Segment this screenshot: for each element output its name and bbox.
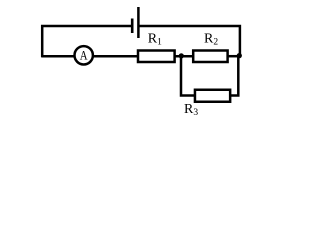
wire: battery to top-right corner, right vertical, to R3 right lead: [140, 26, 240, 58]
svg-text:A: A: [80, 48, 88, 63]
wire: bottom-left horizontal to ammeter: [41, 55, 74, 58]
wire: ammeter to R1: [94, 55, 138, 58]
ammeter A circle: [75, 46, 93, 64]
battery B1 long plate (positive): [137, 7, 140, 38]
node B junction dot: [237, 53, 242, 58]
wire: R2 to node B: [227, 55, 240, 58]
battery B1 short plate (negative): [131, 19, 134, 34]
resistor R3 box: [195, 90, 230, 102]
wire: R1 to node A to R2: [174, 55, 194, 58]
wire: left vertical + top-left horizontal to battery: [42, 26, 132, 57]
wire: node B down and to R3 right lead: [230, 55, 238, 96]
wire: node A down and along bottom branch to R3: [181, 56, 195, 95]
svg-text:R2: R2: [204, 31, 218, 47]
svg-text:R3: R3: [184, 102, 198, 118]
svg-text:R1: R1: [148, 31, 162, 47]
node A junction dot: [179, 53, 184, 58]
resistor R2 box: [193, 51, 227, 63]
resistor R1 box: [138, 51, 175, 63]
